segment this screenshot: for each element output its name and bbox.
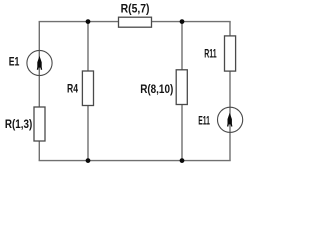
wire R(8,10) branch [181,22,183,161]
label R(5,7) [121,4,150,16]
resistor R(1,3) [34,107,45,141]
wire top rail right segment [151,21,231,23]
wire bottom rail [39,160,231,162]
node top R4 junction [86,19,91,24]
svg-text:R(1,3): R(1,3) [5,119,33,131]
node top R(8,10) junction [180,19,185,24]
resistor R(5,7) [119,17,152,27]
wire right branch [229,22,231,161]
svg-text:E1: E1 [9,57,20,69]
label E11 [198,116,210,128]
label R(1,3) [5,119,33,131]
label R4 [67,84,78,96]
node bottom R4 junction [86,158,91,163]
svg-text:R(5,7): R(5,7) [121,4,150,16]
resistor R11 [225,36,236,71]
svg-text:R(8,10): R(8,10) [140,84,173,96]
svg-text:R4: R4 [67,84,78,96]
svg-text:E11: E11 [198,116,210,128]
wire top rail left segment [39,21,119,23]
current source E11 [218,107,243,132]
node bottom R(8,10) junction [180,158,185,163]
label R(8,10) [140,84,173,96]
svg-text:R11: R11 [204,49,217,61]
wire left branch [38,22,40,161]
resistor R4 [82,71,93,106]
current source E1 [27,50,52,75]
wire R4 branch [87,22,89,161]
label R11 [204,49,217,61]
resistor R(8,10) [176,70,187,105]
label E1 [9,57,20,69]
